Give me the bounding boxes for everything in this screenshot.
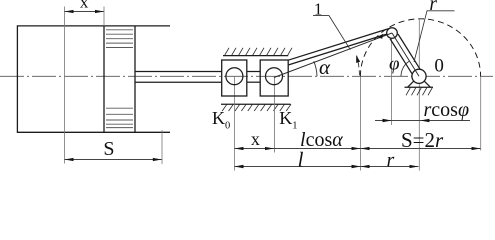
dimension r cos phi bbox=[375, 120, 470, 122]
extension line at x=360.5 (circle left point) bbox=[360, 76, 362, 171]
crank edge right bbox=[398, 34, 420, 69]
dimension l cos a bbox=[274, 148, 361, 150]
piston ring hatch bottom bbox=[106, 108, 133, 127]
crank circle (dashed, radius r) bbox=[360, 19, 480, 77]
extension line at x=274.4 (K1 center) bbox=[273, 76, 275, 152]
dashed motion arc with arrow bbox=[357, 56, 360, 76]
link 1 upper edge bbox=[288, 28, 390, 60]
svg-text:1: 1 bbox=[314, 0, 323, 18]
r leader line bbox=[414, 11, 455, 62]
top guide hatching bbox=[225, 48, 293, 56]
dimension x (bottom row) bbox=[235, 148, 275, 150]
extension line at x=480.7 (circle right point) bbox=[480, 76, 482, 150]
angle alpha arc bbox=[314, 61, 317, 76]
piston ring hatch top bbox=[106, 30, 133, 48]
pivot ground hatching bbox=[406, 87, 433, 95]
bottom guide support bbox=[221, 103, 291, 105]
extension line at x=391.5 (pin B vertical) bbox=[391, 38, 393, 125]
svg-text:α: α bbox=[319, 55, 331, 79]
motion arc arrowhead bbox=[356, 55, 360, 63]
slider K1 pin circle bbox=[266, 68, 283, 85]
pivot O circle bbox=[412, 69, 426, 83]
svg-text:l: l bbox=[298, 147, 304, 171]
svg-text:lcosα: lcosα bbox=[300, 129, 343, 151]
pin joint B circle bbox=[387, 28, 398, 39]
link 1 lower edge bbox=[288, 34, 387, 65]
dimension S=2r bbox=[361, 148, 481, 150]
svg-text:rcosφ: rcosφ bbox=[424, 99, 470, 121]
svg-text:φ: φ bbox=[389, 53, 400, 74]
extension line at x=234.5 (K0 center) bbox=[234, 76, 236, 170]
link 1 leader line bbox=[313, 16, 350, 50]
piston bbox=[103, 26, 105, 132]
dimension x (top) bbox=[64, 7, 66, 164]
svg-text:r: r bbox=[387, 149, 395, 171]
dimension l bbox=[235, 166, 361, 168]
svg-text:r: r bbox=[429, 0, 437, 15]
pivot ground triangle bbox=[405, 81, 434, 88]
extension above piston edge bbox=[103, 7, 105, 26]
slider K0 block bbox=[222, 60, 247, 96]
crank edge left bbox=[390, 39, 412, 74]
top guide support bbox=[223, 55, 288, 57]
dimension r (bottom) bbox=[361, 166, 419, 168]
extension line at x=419.3 (crank pivot vertical) bbox=[418, 20, 420, 171]
rotation arrow on crank circle bbox=[377, 34, 383, 39]
svg-text:0: 0 bbox=[434, 55, 444, 76]
centerline (horizontal dash-dot axis) bbox=[0, 75, 493, 77]
crank axis (pin B to pivot O) bbox=[392, 33, 419, 76]
slider K0 pin circle bbox=[226, 68, 243, 85]
bottom guide hatching bbox=[222, 104, 291, 111]
angle phi arc bbox=[401, 61, 410, 76]
link 1 axis (K1 center to pin B) bbox=[274, 33, 392, 78]
rod segment between sliders bbox=[247, 71, 260, 73]
svg-text:S=2r: S=2r bbox=[401, 128, 444, 152]
cylinder body bbox=[17, 26, 170, 132]
svg-text:x: x bbox=[251, 129, 260, 149]
svg-text:S: S bbox=[103, 138, 114, 160]
slider K1 block bbox=[260, 60, 288, 96]
svg-text:x: x bbox=[80, 0, 89, 12]
dimension S (piston stroke, left) bbox=[161, 130, 163, 164]
piston rod bbox=[135, 71, 222, 73]
